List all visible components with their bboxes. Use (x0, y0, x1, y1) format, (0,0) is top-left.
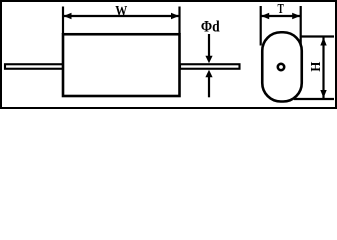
capacitor body (side view) (63, 34, 180, 96)
dimension H line (322, 37, 324, 100)
svg-text:H: H (307, 61, 323, 72)
border frame (1, 1, 336, 108)
dimension H arrowhead top (320, 38, 326, 46)
lead end (ring) (278, 64, 284, 70)
dimension T arrowhead right (292, 13, 300, 20)
dimension H arrowhead bottom (320, 90, 326, 98)
dimension W extension line left (62, 7, 64, 35)
dimension Phi-d lower arrow line (208, 77, 210, 97)
dimension H extension line bottom (294, 98, 334, 100)
dimension H extension line top (302, 35, 335, 37)
dimension W arrowhead right (171, 13, 179, 20)
svg-text:Φd: Φd (201, 18, 221, 35)
capacitor body (end view, obround) (262, 32, 302, 101)
dimension T arrowhead left (261, 13, 269, 20)
dimension W extension line right (178, 7, 180, 35)
svg-text:W: W (115, 2, 127, 19)
dimension T extension line right (300, 6, 302, 46)
svg-text:T: T (278, 0, 284, 16)
dimension Phi-d upper arrow line (208, 34, 210, 57)
lead (left axial wire) (5, 64, 64, 69)
lead (right axial wire) (180, 64, 240, 69)
dimension W line (63, 15, 180, 17)
dimension Phi-d upper arrowhead (205, 56, 212, 63)
dimension T line (261, 15, 301, 17)
dimension T extension line left (260, 6, 262, 46)
dimension W arrowhead left (64, 13, 72, 20)
dimension Phi-d lower arrowhead (205, 70, 212, 77)
